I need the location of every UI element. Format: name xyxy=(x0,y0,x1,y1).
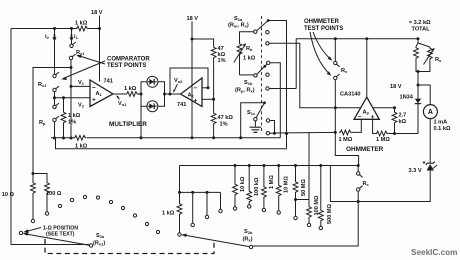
svg-text:(Rx): (Rx) xyxy=(243,237,253,243)
resistor 10M xyxy=(277,164,280,167)
wire: 1N34 column join xyxy=(395,104,419,134)
op-amp A3 CA3140 (apex up) xyxy=(354,97,379,119)
resistor 1k 1% vertical xyxy=(63,98,65,111)
rail1: comparator lower rail with 1k resistor xyxy=(51,137,280,139)
resistor 1k (S2b first position) xyxy=(179,192,181,202)
svg-text:S2a: S2a xyxy=(96,233,105,239)
svg-text:(Rm, Rx): (Rm, Rx) xyxy=(228,23,249,29)
wire: diode node drop to rail1 xyxy=(140,95,142,138)
svg-text:Rx1: Rx1 xyxy=(76,50,85,56)
node i1 top xyxy=(70,27,73,30)
S2b direct contacts xyxy=(192,192,194,223)
svg-text:100 kΩ: 100 kΩ xyxy=(254,177,260,196)
wire: A3 apex up to test line xyxy=(366,39,368,97)
svg-text:OHMMETER: OHMMETER xyxy=(346,146,384,153)
node 18V rail xyxy=(98,27,101,30)
wire: meter to zener xyxy=(429,119,431,163)
wire: V2 input line xyxy=(55,97,91,99)
wire: branch to S2a resistors xyxy=(33,68,71,174)
svg-text:+: + xyxy=(92,97,96,104)
resistor 1k between A1 and diodes xyxy=(126,92,139,97)
svg-text:TEST POINTS: TEST POINTS xyxy=(304,26,343,32)
svg-text:1 mA: 1 mA xyxy=(434,120,448,126)
svg-text:S2b: S2b xyxy=(244,229,253,235)
wire: A1 output row to diodes xyxy=(113,93,141,95)
switch S1b pole and arm xyxy=(254,74,257,77)
wire: i2 to V2 node xyxy=(54,92,56,98)
wire: S1a selected contact to Rb pot xyxy=(240,32,254,43)
S2a 1-ohm contact and arm xyxy=(19,231,22,234)
zener diode 3.3V xyxy=(427,164,434,171)
wire: branch to 47k top xyxy=(192,39,214,46)
S1a spare contact xyxy=(266,31,269,34)
svg-text:1 kΩ: 1 kΩ xyxy=(68,113,81,119)
svg-text:A1: A1 xyxy=(96,91,103,97)
svg-text:TEST POINTS: TEST POINTS xyxy=(107,63,146,69)
wire: top-left 18V supply rail xyxy=(11,28,100,30)
potentiometer Rb 1k xyxy=(237,43,242,56)
svg-text:1N34: 1N34 xyxy=(400,95,414,101)
wire: 18V drop top-left xyxy=(99,16,101,82)
svg-text:kΩ: kΩ xyxy=(399,119,407,125)
arrow from 1-ohm position text xyxy=(25,228,41,232)
svg-text:A: A xyxy=(428,109,433,116)
svg-text:(Rx1): (Rx1) xyxy=(93,241,105,247)
svg-text:SeekIC.com: SeekIC.com xyxy=(411,248,457,257)
wire: i2 column with current arrow xyxy=(54,29,56,75)
svg-text:CA3140: CA3140 xyxy=(340,92,361,98)
svg-text:Vo1: Vo1 xyxy=(118,101,127,107)
switch S1c arm to grounded contact xyxy=(256,103,264,118)
wire: zener down to return line xyxy=(358,171,430,202)
svg-text:Vo2: Vo2 xyxy=(174,78,183,84)
wire: V1 input line xyxy=(71,85,90,87)
svg-text:(Rp, Rx): (Rp, Rx) xyxy=(235,88,255,94)
svg-text:≈ 3.2 kΩ: ≈ 3.2 kΩ xyxy=(409,20,431,26)
svg-text:*: * xyxy=(423,161,426,168)
resistor 500M xyxy=(319,164,322,167)
svg-text:100 Ω: 100 Ω xyxy=(46,191,62,197)
svg-text:S1a: S1a xyxy=(234,16,243,22)
svg-text:COMPARATOR: COMPARATOR xyxy=(107,57,150,63)
wire: left edge wire from top rail down to S2a pole xyxy=(11,29,89,245)
svg-text:10 MΩ: 10 MΩ xyxy=(284,176,290,193)
svg-text:(SEE TEXT): (SEE TEXT) xyxy=(46,232,75,238)
svg-text:1%: 1% xyxy=(218,58,226,64)
wire: A3 right mid line to 2.7k node xyxy=(373,107,395,109)
svg-text:S1c: S1c xyxy=(247,110,256,116)
svg-text:−: − xyxy=(92,85,96,92)
svg-text:741: 741 xyxy=(177,102,186,108)
test point pair Rp below V2 node xyxy=(54,98,56,105)
svg-text:OHMMETER: OHMMETER xyxy=(304,19,340,25)
svg-text:1 kΩ: 1 kΩ xyxy=(124,86,137,92)
svg-text:Rc: Rc xyxy=(363,181,370,187)
svg-text:18 V: 18 V xyxy=(91,10,103,16)
svg-text:A3: A3 xyxy=(363,110,370,116)
test point pair Rx1 on i2 column xyxy=(53,74,56,77)
wire: i1 column with current arrow xyxy=(71,29,73,45)
svg-text:3.3 V: 3.3 V xyxy=(409,168,422,174)
op-amp A1 741 xyxy=(90,80,113,107)
test point pair Rx1 on i1 column xyxy=(70,44,73,47)
svg-text:10 kΩ: 10 kΩ xyxy=(240,176,246,192)
ohmmeter test top line xyxy=(296,38,418,40)
wire: i1 column lower xyxy=(70,60,72,138)
svg-text:18 V: 18 V xyxy=(187,16,199,22)
wire: test line left leg down xyxy=(295,39,297,89)
meter A xyxy=(423,105,437,119)
svg-text:+: + xyxy=(194,98,198,105)
svg-text:1 MΩ: 1 MΩ xyxy=(376,137,390,143)
resistor 2.7k xyxy=(394,108,396,111)
svg-text:47 kΩ: 47 kΩ xyxy=(218,115,234,121)
svg-text:1 MΩ: 1 MΩ xyxy=(339,137,353,143)
ground symbol S1c xyxy=(250,127,262,132)
wire: A3 left mid line xyxy=(335,107,360,109)
S1c contacts joined xyxy=(266,119,269,122)
switch S1a pole and arm xyxy=(254,30,257,33)
svg-text:−: − xyxy=(358,114,362,121)
wire D: S1c contacts to A3 minus node xyxy=(275,131,336,134)
svg-text:1%: 1% xyxy=(68,120,76,126)
wire A: S1a pole line down to S1c contact line xyxy=(268,21,286,149)
S1b spare contact xyxy=(266,73,269,76)
svg-text:V1: V1 xyxy=(78,80,85,86)
resistor R 1k top-left rail xyxy=(76,26,89,31)
svg-text:Rx: Rx xyxy=(341,68,348,74)
main range bus xyxy=(180,165,359,167)
svg-text:V2: V2 xyxy=(78,103,85,109)
resistor 50M xyxy=(294,164,297,167)
svg-text:741: 741 xyxy=(104,79,113,85)
S1b contact to wire C (ohmmeter + lead) xyxy=(266,87,269,90)
svg-text:Rb: Rb xyxy=(246,46,253,52)
svg-text:0.1 kΩ: 0.1 kΩ xyxy=(434,126,451,132)
resistor 1M left (feedback) xyxy=(339,130,352,135)
wire: Rc node left loop xyxy=(330,166,358,202)
switch S2b arm xyxy=(249,245,252,248)
range bus left end to sub-bus xyxy=(180,166,221,193)
A2 feedback loop wire xyxy=(170,68,208,94)
resistor 1M right xyxy=(373,119,376,133)
ohmmeter test points arrows xyxy=(313,32,331,60)
op-amp A2 741 (pointing left) xyxy=(181,78,202,107)
wire: A2 plus stub xyxy=(202,98,214,100)
wire: Rp bottom to rail1 xyxy=(54,122,56,138)
svg-text:500 MΩ: 500 MΩ xyxy=(327,203,333,224)
svg-text:10 Ω: 10 Ω xyxy=(2,192,15,198)
Vo1 label arrow xyxy=(117,96,120,99)
switch S1c pole feed wire from rail1 xyxy=(241,103,265,138)
wire: Rb bottom to S1b contact xyxy=(240,74,254,76)
svg-text:1%: 1% xyxy=(220,122,228,128)
svg-text:1 MΩ: 1 MΩ xyxy=(269,175,275,189)
svg-text:Rs: Rs xyxy=(435,57,442,63)
S1a contact to wire B xyxy=(266,42,269,45)
ohmmeter test point contacts Rx xyxy=(334,39,336,62)
svg-text:TOTAL: TOTAL xyxy=(412,27,431,33)
svg-text:1 kΩ: 1 kΩ xyxy=(75,21,88,27)
wire: S1b pole down to range bus xyxy=(270,63,280,138)
svg-text:2.7: 2.7 xyxy=(399,113,407,119)
resistor 10k xyxy=(234,164,237,167)
Rs network approx 3.2k total xyxy=(416,39,430,47)
diode 1N34 xyxy=(415,99,421,104)
wire: 18V node to meter xyxy=(418,85,430,105)
comparator test points arrows xyxy=(63,61,105,79)
resistor 47k 1% upper xyxy=(211,46,216,59)
svg-text:Rx1: Rx1 xyxy=(38,82,47,88)
svg-text:50 MΩ: 50 MΩ xyxy=(301,179,307,196)
svg-text:18 V: 18 V xyxy=(390,84,402,90)
resistor 1M xyxy=(262,164,265,167)
svg-text:−: − xyxy=(194,85,198,92)
wire: 18V mid drop xyxy=(191,22,193,138)
dashed gang link S2a-S2b xyxy=(45,239,214,254)
100 ohm resistor xyxy=(33,174,47,182)
rail2 lower xyxy=(56,138,287,149)
wire: Rc node down to S2b pole line xyxy=(253,202,359,247)
svg-text:1 kΩ: 1 kΩ xyxy=(162,211,175,217)
Vo2 label arrow xyxy=(174,84,178,92)
multiplier diode pair (circled) xyxy=(141,82,165,94)
wire: diodes to A2 output xyxy=(165,93,181,95)
resistor 100M (off 50M node) xyxy=(296,132,310,205)
svg-text:1 kΩ: 1 kΩ xyxy=(243,56,256,62)
switch S2a: 10 ohm resistor xyxy=(32,172,35,175)
resistor 100k xyxy=(248,164,251,167)
svg-text:Rp: Rp xyxy=(39,120,46,126)
wire: A2 minus stub xyxy=(202,87,209,89)
resistor 47k 1% lower xyxy=(213,99,215,112)
svg-text:S1b: S1b xyxy=(244,80,253,86)
test pair Rc xyxy=(357,166,359,172)
svg-text:MULTIPLIER: MULTIPLIER xyxy=(109,121,147,128)
svg-text:+: + xyxy=(371,114,375,121)
switch S1a dashed gang line xyxy=(261,16,263,133)
svg-text:100 MΩ: 100 MΩ xyxy=(314,195,320,216)
node i2 top xyxy=(53,27,56,30)
S2a spare arc contacts xyxy=(58,204,61,207)
svg-text:1 kΩ: 1 kΩ xyxy=(75,144,88,150)
